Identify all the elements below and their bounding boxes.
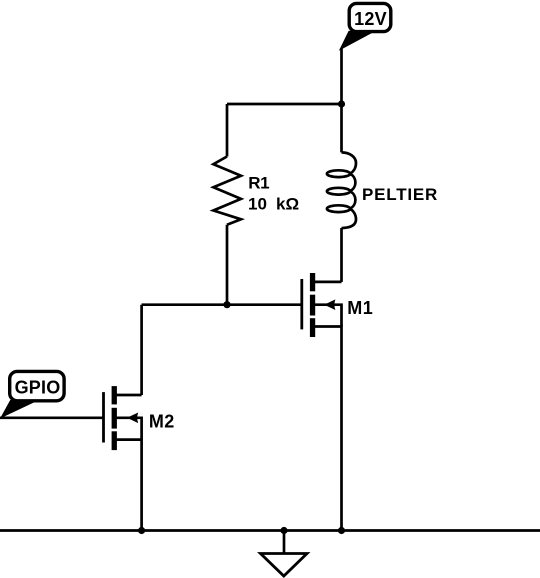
svg-text:M1: M1 [347,298,373,318]
svg-text:10: 10 [248,195,267,214]
svg-text:kΩ: kΩ [276,195,299,214]
svg-text:PELTIER: PELTIER [362,185,438,204]
svg-text:R1: R1 [248,173,269,192]
svg-text:12V: 12V [354,9,387,29]
svg-text:GPIO: GPIO [15,378,61,398]
svg-text:M2: M2 [149,411,175,431]
